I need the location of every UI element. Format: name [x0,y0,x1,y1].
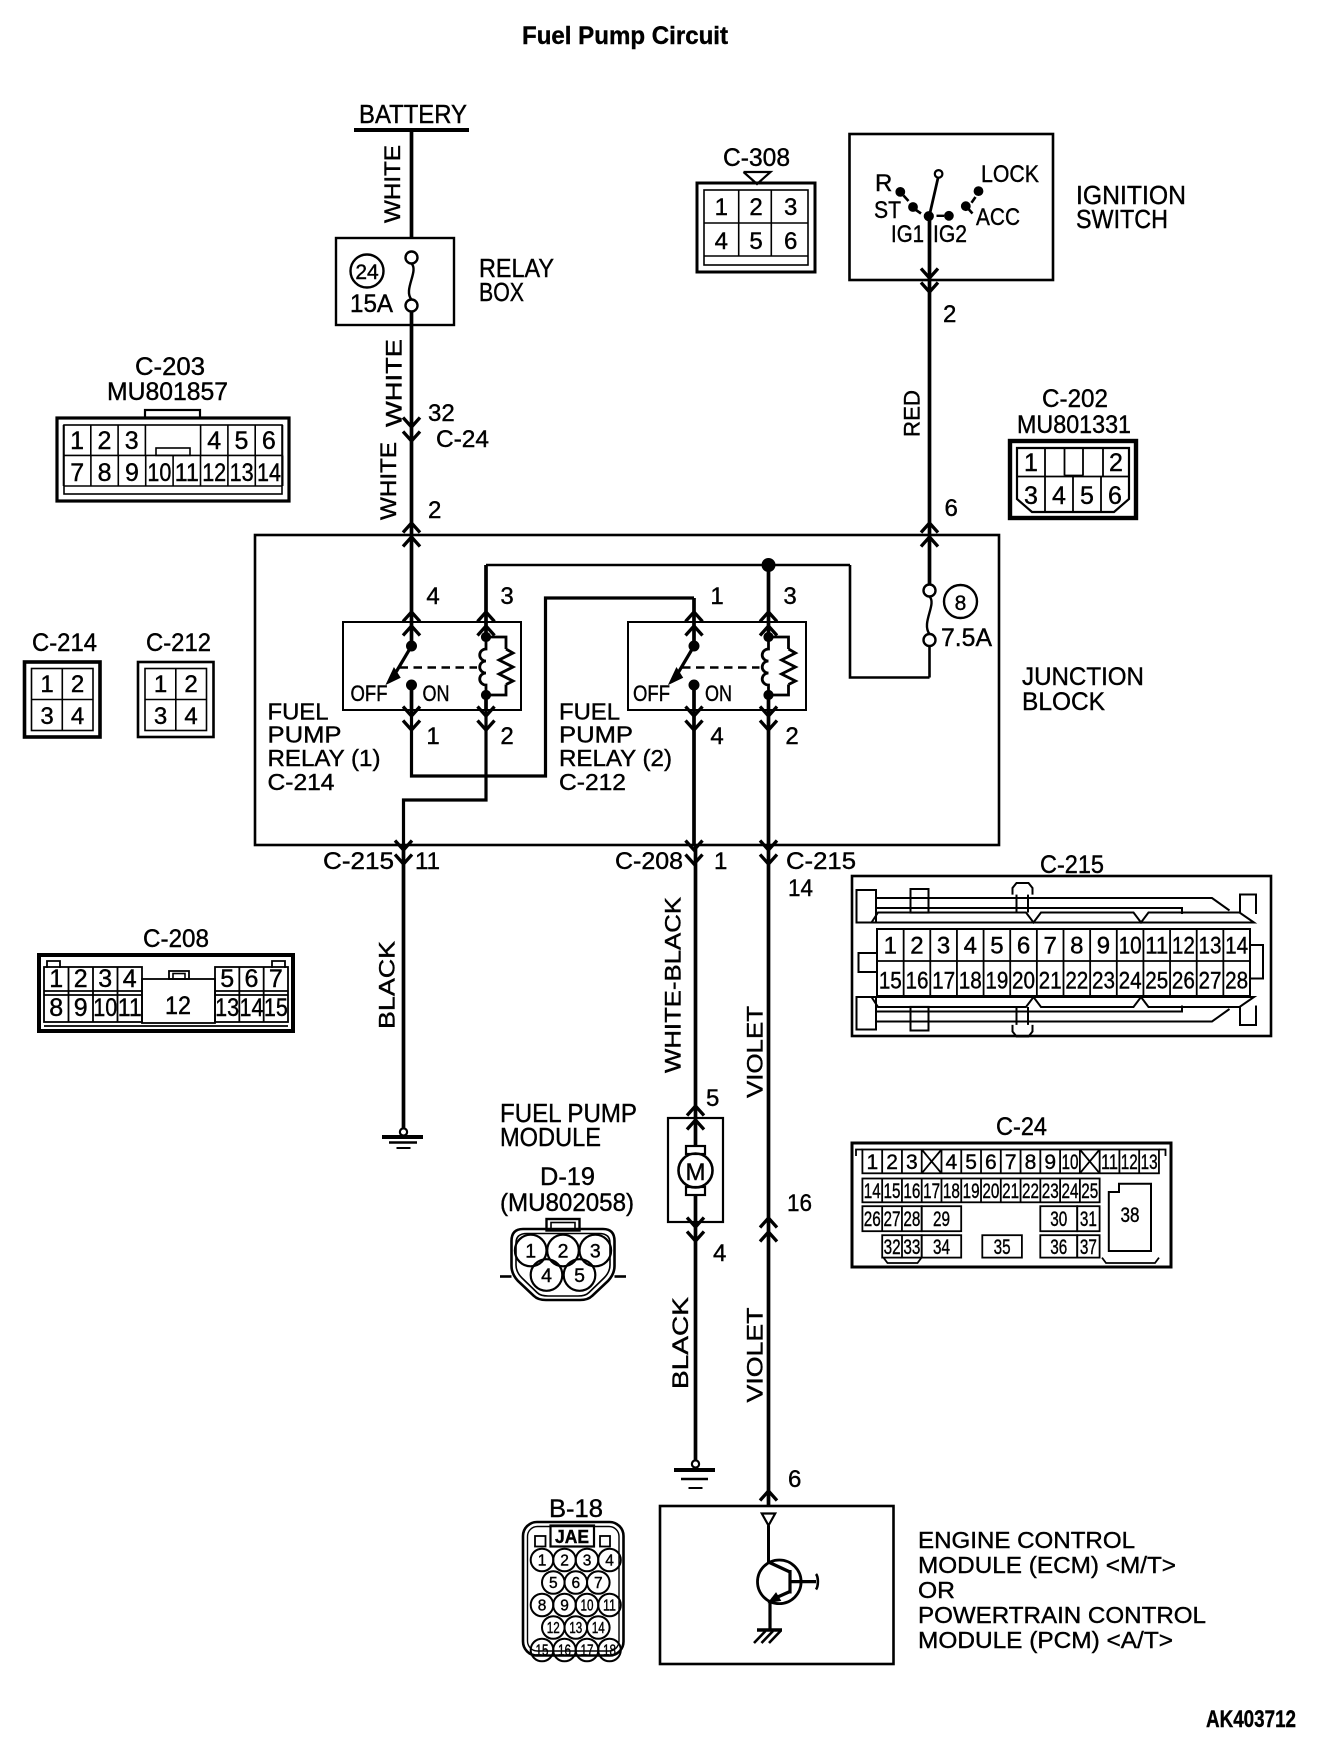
svg-text:C-214: C-214 [32,629,97,657]
svg-text:2: 2 [886,1151,898,1174]
svg-text:6: 6 [788,1466,801,1493]
svg-text:13: 13 [230,459,254,487]
svg-text:7: 7 [269,965,283,993]
svg-text:7.5A: 7.5A [941,624,992,652]
svg-text:3: 3 [98,965,112,993]
svg-text:11: 11 [118,994,142,1022]
svg-text:16: 16 [558,1643,571,1660]
svg-text:1: 1 [710,583,723,610]
svg-text:1: 1 [525,1241,536,1263]
svg-text:1: 1 [70,427,84,455]
svg-text:C-212: C-212 [559,769,626,795]
svg-text:2: 2 [1109,449,1123,477]
svg-text:11: 11 [1101,1151,1118,1174]
svg-text:5: 5 [1080,482,1094,510]
svg-text:15: 15 [536,1643,549,1660]
svg-text:ON: ON [423,681,450,706]
svg-text:ON: ON [705,681,732,706]
svg-text:IG1: IG1 [891,221,924,248]
svg-text:C-208: C-208 [143,925,209,953]
svg-text:10: 10 [581,1598,594,1615]
svg-text:2: 2 [500,723,513,750]
svg-text:13: 13 [1199,933,1222,960]
svg-text:MU801857: MU801857 [107,378,228,406]
svg-text:29: 29 [933,1208,950,1231]
svg-text:13: 13 [569,1620,582,1637]
svg-text:ENGINE CONTROL: ENGINE CONTROL [918,1527,1135,1553]
svg-text:C-214: C-214 [268,769,335,795]
svg-text:C-203: C-203 [135,353,205,381]
svg-text:3: 3 [590,1241,601,1263]
svg-text:28: 28 [1225,968,1248,995]
svg-text:D-19: D-19 [540,1163,595,1191]
svg-text:5: 5 [549,1575,558,1592]
svg-text:ST: ST [874,197,901,224]
svg-text:R: R [875,170,892,197]
svg-text:24: 24 [355,261,379,284]
svg-text:4: 4 [123,965,137,993]
svg-text:14: 14 [1225,933,1248,960]
svg-text:WHITE: WHITE [382,339,407,427]
svg-text:BLACK: BLACK [668,1297,693,1389]
svg-text:13: 13 [1141,1151,1158,1174]
svg-text:Fuel Pump Circuit: Fuel Pump Circuit [522,22,729,50]
svg-text:3: 3 [906,1151,918,1174]
svg-text:16: 16 [903,1180,920,1203]
svg-text:5: 5 [706,1085,719,1112]
svg-text:1: 1 [49,965,63,993]
svg-text:1: 1 [715,194,728,221]
svg-text:8: 8 [98,459,112,487]
svg-text:7: 7 [594,1575,603,1592]
svg-text:36: 36 [1050,1236,1067,1259]
svg-text:32: 32 [884,1236,901,1259]
svg-text:C-212: C-212 [146,629,211,657]
svg-text:9: 9 [560,1598,569,1615]
svg-text:1: 1 [714,848,727,875]
svg-text:MODULE: MODULE [500,1122,601,1152]
svg-text:RED: RED [900,390,925,437]
svg-text:14: 14 [257,459,281,487]
svg-text:RELAY (1): RELAY (1) [268,745,381,771]
svg-text:4: 4 [71,703,84,730]
svg-text:3: 3 [40,703,53,730]
svg-text:15: 15 [879,968,902,995]
svg-text:C-202: C-202 [1042,385,1108,413]
svg-text:4: 4 [710,723,723,750]
svg-text:4: 4 [207,427,221,455]
svg-text:MODULE (PCM) <A/T>: MODULE (PCM) <A/T> [918,1627,1173,1653]
svg-text:1: 1 [154,671,167,698]
svg-text:12: 12 [165,992,191,1020]
svg-text:12: 12 [547,1620,560,1637]
svg-text:M: M [686,1159,706,1186]
svg-text:3: 3 [784,194,797,221]
svg-text:C-308: C-308 [723,144,790,172]
svg-text:1: 1 [40,671,53,698]
svg-text:3: 3 [154,703,167,730]
svg-text:1: 1 [866,1151,878,1174]
svg-text:5: 5 [574,1265,585,1287]
svg-text:10: 10 [93,994,117,1022]
svg-text:2: 2 [97,427,111,455]
svg-text:6: 6 [784,228,797,255]
svg-text:B-18: B-18 [549,1495,603,1523]
svg-text:2: 2 [943,301,956,328]
svg-text:17: 17 [581,1643,594,1660]
svg-text:6: 6 [262,427,276,455]
svg-text:AK403712: AK403712 [1206,1706,1296,1733]
svg-text:5: 5 [965,1151,977,1174]
svg-text:12: 12 [1121,1151,1138,1174]
svg-text:24: 24 [1061,1180,1078,1203]
svg-text:19: 19 [963,1180,980,1203]
svg-text:1: 1 [1024,449,1038,477]
svg-text:PUMP: PUMP [559,722,633,748]
svg-text:1: 1 [426,723,439,750]
svg-text:10: 10 [147,459,171,487]
svg-text:8: 8 [538,1598,547,1615]
svg-text:20: 20 [1012,968,1035,995]
svg-text:24: 24 [1119,968,1142,995]
svg-text:WHITE-BLACK: WHITE-BLACK [661,897,686,1073]
svg-text:4: 4 [715,228,728,255]
svg-text:5: 5 [220,965,234,993]
svg-text:3: 3 [500,583,513,610]
svg-text:7: 7 [1005,1151,1017,1174]
svg-text:5: 5 [235,427,249,455]
svg-text:22: 22 [1065,968,1088,995]
svg-text:11: 11 [1145,933,1168,960]
svg-text:26: 26 [1172,968,1195,995]
svg-text:11: 11 [603,1598,616,1615]
svg-text:VIOLET: VIOLET [743,1006,768,1098]
svg-text:C-24: C-24 [996,1113,1047,1141]
svg-text:7: 7 [70,459,84,487]
svg-text:C-24: C-24 [436,426,489,453]
svg-text:35: 35 [994,1236,1011,1259]
svg-text:C-215: C-215 [786,848,856,875]
svg-text:9: 9 [1097,933,1110,960]
svg-text:BOX: BOX [479,277,524,307]
svg-text:MODULE (ECM) <M/T>: MODULE (ECM) <M/T> [918,1552,1176,1578]
svg-text:28: 28 [903,1208,920,1231]
svg-text:4: 4 [1052,482,1066,510]
svg-text:14: 14 [592,1620,605,1637]
svg-text:8: 8 [955,592,967,615]
svg-text:2: 2 [558,1241,569,1263]
svg-text:MU801331: MU801331 [1017,411,1131,439]
svg-text:10: 10 [1119,933,1142,960]
svg-text:4: 4 [713,1240,726,1267]
svg-text:18: 18 [959,968,982,995]
svg-text:BATTERY: BATTERY [359,99,467,129]
svg-text:POWERTRAIN CONTROL: POWERTRAIN CONTROL [918,1602,1206,1628]
svg-text:12: 12 [202,459,226,487]
svg-text:WHITE: WHITE [380,145,405,223]
svg-text:1: 1 [538,1553,547,1570]
svg-text:38: 38 [1121,1204,1140,1227]
svg-text:21: 21 [1039,968,1062,995]
svg-text:6: 6 [945,495,958,522]
svg-text:12: 12 [1172,933,1195,960]
svg-text:9: 9 [74,994,88,1022]
svg-text:6: 6 [985,1151,997,1174]
svg-text:33: 33 [903,1236,920,1259]
svg-text:LOCK: LOCK [981,161,1039,188]
svg-text:ACC: ACC [976,204,1020,231]
svg-text:3: 3 [783,583,796,610]
svg-text:2: 2 [71,671,84,698]
svg-text:SWITCH: SWITCH [1076,204,1168,234]
svg-text:14: 14 [788,875,813,902]
svg-text:4: 4 [541,1265,552,1287]
svg-text:21: 21 [1002,1180,1019,1203]
svg-text:16: 16 [787,1190,812,1217]
svg-text:6: 6 [1017,933,1030,960]
svg-text:14: 14 [240,994,264,1022]
svg-text:23: 23 [1092,968,1115,995]
svg-text:4: 4 [184,703,197,730]
svg-text:VIOLET: VIOLET [743,1308,768,1403]
svg-text:19: 19 [985,968,1008,995]
svg-text:4: 4 [605,1553,614,1570]
svg-text:17: 17 [932,968,955,995]
svg-text:6: 6 [571,1575,580,1592]
svg-text:17: 17 [923,1180,940,1203]
svg-text:2: 2 [910,933,923,960]
svg-text:32: 32 [428,400,455,427]
svg-text:18: 18 [603,1643,616,1660]
svg-text:2: 2 [785,723,798,750]
svg-text:JAE: JAE [555,1527,589,1547]
svg-text:WHITE: WHITE [376,442,401,520]
svg-text:3: 3 [1024,482,1038,510]
svg-text:BLACK: BLACK [375,941,400,1029]
svg-text:4: 4 [946,1151,958,1174]
svg-text:22: 22 [1022,1180,1039,1203]
svg-text:C-208: C-208 [615,848,683,875]
svg-text:2: 2 [184,671,197,698]
svg-text:2: 2 [74,965,88,993]
svg-text:BLOCK: BLOCK [1022,688,1105,716]
svg-text:8: 8 [1070,933,1083,960]
svg-text:23: 23 [1042,1180,1059,1203]
svg-text:2: 2 [560,1553,569,1570]
svg-text:27: 27 [1199,968,1222,995]
svg-text:14: 14 [864,1180,881,1203]
svg-text:2: 2 [428,497,441,524]
svg-text:3: 3 [125,427,139,455]
svg-text:RELAY (2): RELAY (2) [559,745,672,771]
svg-text:16: 16 [905,968,928,995]
svg-text:6: 6 [245,965,259,993]
svg-text:11: 11 [175,459,199,487]
svg-text:5: 5 [749,228,762,255]
svg-text:OFF: OFF [633,681,670,706]
svg-text:9: 9 [125,459,139,487]
svg-text:5: 5 [990,933,1003,960]
svg-text:26: 26 [864,1208,881,1231]
svg-text:37: 37 [1080,1236,1097,1259]
svg-text:OFF: OFF [351,681,388,706]
svg-text:(MU802058): (MU802058) [500,1189,634,1217]
svg-text:OR: OR [918,1577,955,1603]
svg-text:3: 3 [937,933,950,960]
svg-text:25: 25 [1145,968,1168,995]
svg-text:1: 1 [884,933,897,960]
svg-text:IG2: IG2 [933,221,967,248]
svg-text:25: 25 [1081,1180,1098,1203]
svg-text:10: 10 [1061,1151,1078,1174]
svg-text:3: 3 [583,1553,592,1570]
svg-text:18: 18 [943,1180,960,1203]
svg-text:34: 34 [933,1236,950,1259]
svg-text:4: 4 [964,933,977,960]
svg-text:31: 31 [1080,1208,1097,1231]
svg-text:15A: 15A [350,290,393,318]
svg-text:C-215: C-215 [323,848,394,875]
svg-text:9: 9 [1044,1151,1056,1174]
svg-text:4: 4 [426,583,439,610]
svg-text:30: 30 [1050,1208,1067,1231]
svg-text:20: 20 [982,1180,999,1203]
svg-text:8: 8 [1025,1151,1037,1174]
svg-text:13: 13 [215,994,239,1022]
svg-text:15: 15 [264,994,288,1022]
svg-text:15: 15 [884,1180,901,1203]
svg-text:7: 7 [1043,933,1056,960]
svg-text:27: 27 [884,1208,901,1231]
svg-text:JUNCTION: JUNCTION [1022,663,1144,691]
svg-text:PUMP: PUMP [268,722,342,748]
svg-text:6: 6 [1108,482,1122,510]
svg-text:8: 8 [49,994,63,1022]
svg-text:2: 2 [749,194,762,221]
svg-text:11: 11 [415,848,440,875]
